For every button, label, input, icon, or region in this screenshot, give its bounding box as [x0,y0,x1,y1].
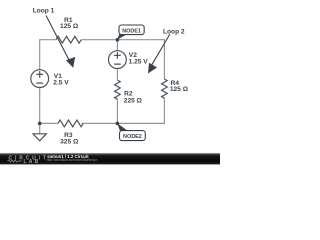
wire R3 to ground junction and up to V1 [40,88,58,124]
svg-text:325 Ω: 325 Ω [60,139,79,146]
svg-text:2.5 V: 2.5 V [53,80,69,87]
svg-text:1.25 V: 1.25 V [129,59,149,66]
loop 2 annotation arrow [148,34,170,74]
wire R4 to bottom-right corner [82,98,165,123]
svg-text:125 Ω: 125 Ω [60,23,79,30]
svg-text:Loop 1: Loop 1 [33,8,55,15]
svg-text:Loop 2: Loop 2 [163,29,185,36]
wire R1 to top-right corner [81,40,164,79]
wire NODE1 junction to V2 [116,40,118,51]
circuitlab logo squiggle [8,160,22,162]
svg-text:NODE2: NODE2 [123,134,142,140]
svg-text:125 Ω: 125 Ω [170,86,189,93]
resistor R4 [162,79,168,98]
voltage source V2 [109,51,127,69]
footer watermark bar [0,153,220,165]
svg-text:R2: R2 [124,90,133,97]
ground [33,134,46,141]
junction node at NODE1 [116,38,120,42]
svg-text:http://circuitlab.com/csm26ur5: http://circuitlab.com/csm26ur5n0yr [47,158,98,162]
wire R2 to NODE2 junction [116,99,118,123]
loop 1 annotation arrow [46,16,75,68]
wire V2 to R2 [116,69,118,80]
svg-text:NODE1: NODE1 [122,28,141,34]
svg-text:225 Ω: 225 Ω [124,98,143,105]
junction node at NODE2 [116,122,120,126]
node label NODE2 [117,123,145,140]
wire top-left corner to R1 [40,40,56,70]
resistor R1 [56,36,81,43]
svg-text:LAB: LAB [24,159,41,165]
voltage source V1 [31,70,49,88]
node label NODE1 [117,25,144,40]
wire ground stub [39,123,41,133]
resistor R3 [58,120,83,127]
junction node at ground [38,122,42,126]
resistor R2 [115,80,121,99]
